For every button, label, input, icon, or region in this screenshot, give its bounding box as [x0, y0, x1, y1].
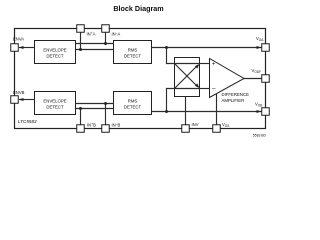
svg-text:DETECT: DETECT — [124, 54, 142, 59]
pin VOS — [213, 125, 221, 133]
op-amp difference amplifier — [210, 59, 245, 98]
wire RMS B output to VOB — [152, 111, 262, 113]
rms detect B block — [114, 92, 152, 115]
pin VOB — [262, 108, 270, 116]
pin INV — [182, 125, 190, 133]
wire IN-A drop — [105, 32, 107, 44]
svg-text:5583 BD: 5583 BD — [253, 134, 267, 138]
pin ENVA — [11, 44, 19, 52]
wire amp output to VODF — [244, 78, 262, 80]
wire tap up to chopper lower input — [167, 89, 175, 112]
wire input rail B upper — [76, 103, 114, 105]
wire VOS pin to amp underside — [216, 94, 218, 126]
svg-text:Block Diagram: Block Diagram — [113, 4, 163, 13]
svg-text:ENVELOPE: ENVELOPE — [43, 48, 66, 53]
svg-text:+: + — [212, 62, 215, 68]
wire input rail A upper — [76, 43, 114, 45]
wire input rail A lower — [76, 49, 114, 51]
envelope detect A block — [35, 41, 76, 64]
svg-text:RMS: RMS — [128, 99, 138, 104]
junction IN-A — [104, 42, 107, 45]
wire chopper lower out to amp — [200, 88, 210, 90]
rms detect A block — [114, 41, 152, 64]
svg-text:DETECT: DETECT — [46, 54, 64, 59]
wire tap down to chopper upper input — [167, 48, 175, 64]
pin VOA — [262, 44, 270, 52]
svg-text:ENVB: ENVB — [13, 90, 25, 95]
pin IN+A — [77, 25, 85, 33]
wire chopper bottom to INV pin — [185, 97, 187, 126]
svg-text:LTC5583: LTC5583 — [18, 119, 37, 124]
pin ENVB — [11, 96, 19, 104]
wire chopper upper out to amp — [200, 63, 210, 65]
wire IN-B rise — [105, 104, 107, 126]
wire input rail B lower — [76, 108, 114, 110]
pin IN-B — [102, 125, 110, 133]
pin IN-A — [102, 25, 110, 33]
wire ENVA output — [19, 47, 35, 49]
svg-text:AMPLIFIER: AMPLIFIER — [222, 98, 245, 103]
svg-text:ENVA: ENVA — [13, 37, 24, 42]
svg-text:INV: INV — [192, 122, 199, 127]
chip boundary LTC5583 — [15, 29, 266, 129]
chopper switch box — [175, 58, 200, 97]
junction IN-B — [104, 102, 107, 105]
envelope detect B block — [35, 92, 76, 115]
pin VODF — [262, 75, 270, 83]
wire RMS A output to VOA — [152, 47, 262, 49]
svg-text:RMS: RMS — [128, 48, 138, 53]
pin IN+B — [77, 125, 85, 133]
junction RMS B tap — [165, 110, 168, 113]
wire ENVB output — [19, 99, 35, 101]
junction IN+B — [79, 107, 82, 110]
svg-text:ENVELOPE: ENVELOPE — [43, 99, 66, 104]
wire IN+B rise — [80, 109, 82, 126]
svg-text:DETECT: DETECT — [124, 105, 142, 110]
junction RMS A tap — [165, 46, 168, 49]
svg-text:DETECT: DETECT — [46, 105, 64, 110]
svg-text:DIFFERENCE: DIFFERENCE — [222, 92, 250, 97]
junction IN+A — [79, 48, 82, 51]
wire IN+A drop — [80, 32, 82, 50]
